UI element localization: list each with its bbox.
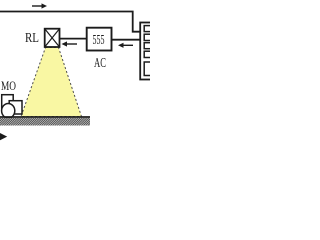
lamp RL (crossed box): [45, 29, 60, 47]
svg-text:MO: MO: [1, 79, 16, 93]
ground hatching: [0, 118, 90, 126]
arrow: supply direction toward 555 (pointing left): [118, 43, 133, 48]
cell 2: [144, 34, 154, 40]
svg-text:RL: RL: [25, 31, 39, 46]
cell 1: [144, 26, 154, 32]
wire: top supply line with corner down to battery: [0, 12, 140, 32]
arrow: partial arrowhead at bottom-left edge (pointing right): [0, 133, 7, 140]
555 timer box U1: [87, 28, 112, 51]
ground line: [0, 116, 90, 118]
battery pack (cut off at right edge): [140, 23, 154, 80]
cell 3: [144, 43, 154, 49]
wire: 555 to battery pack: [112, 39, 141, 41]
light cone (beam from lamp RL to ground): [21, 48, 82, 117]
svg-text:555: 555: [93, 32, 105, 47]
svg-text:AC: AC: [94, 56, 106, 71]
arrow: signal direction toward lamp (pointing left): [62, 41, 78, 46]
cell 5 (tall): [144, 62, 154, 76]
microphone MO (body blocks and capsule): [2, 95, 22, 118]
cell 4: [144, 51, 154, 57]
arrow: direction arrow above top wire (pointing right): [32, 3, 47, 8]
wire: lamp to 555 box: [60, 38, 86, 40]
